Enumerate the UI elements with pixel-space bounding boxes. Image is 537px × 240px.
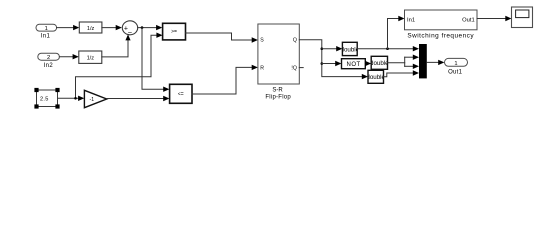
svg-text:>=: >= [171, 29, 177, 35]
wire In2 to UnitDelay2 [59, 54, 78, 59]
wire subsystem to scope [477, 16, 512, 21]
svg-text:R: R [260, 65, 264, 71]
inport In2 [38, 53, 60, 69]
junction node on sum output [141, 26, 144, 29]
junction node to switching frequency subsystem [386, 47, 389, 50]
svg-text:S: S [260, 38, 264, 44]
inport In1 [36, 24, 57, 39]
sum block (+ -) [122, 21, 137, 37]
wire branch down to <= top input [142, 28, 167, 90]
svg-text:1: 1 [454, 61, 457, 67]
scope block [512, 7, 533, 28]
svg-text:double: double [370, 60, 389, 67]
wire dbl B to mux inputs 2 and 3 (branch bracket) [388, 55, 420, 70]
wire up to subsystem input [388, 16, 405, 49]
relational operator <= [170, 84, 192, 103]
svg-text:In1: In1 [41, 33, 51, 39]
svg-text:Q: Q [293, 38, 297, 44]
wire Q output down the bus at x=321.8 to dbl C input [299, 40, 368, 80]
relational operator >= [163, 23, 186, 40]
wire gain to <= bottom input [107, 96, 170, 101]
svg-text:<=: <= [178, 92, 184, 98]
unit delay block 1/z (top) [79, 22, 102, 33]
wire branch to NOT [322, 61, 342, 66]
svg-text:In2: In2 [44, 63, 54, 69]
subsystem Switching frequency [405, 10, 478, 39]
wire dbl A to mux input 1 (branch up to subsystem) [357, 46, 419, 51]
wire dbl C to mux input 4 [384, 70, 420, 76]
svg-text:Flip-Flop: Flip-Flop [265, 95, 291, 101]
wire UnitDelay1 to Sum [102, 25, 122, 30]
wire Sum to relational >= (top input), junction branch down [138, 25, 163, 30]
S-R flip-flop block [258, 24, 299, 101]
svg-text:Out1: Out1 [448, 70, 463, 76]
constant block 2.5 (selected) [34, 88, 59, 109]
svg-text:double: double [366, 74, 385, 81]
svg-text:1: 1 [45, 26, 48, 32]
svg-text:S-R: S-R [272, 87, 283, 93]
junction node on 2.5 output [74, 97, 77, 100]
wire >= output to S input of flip-flop [186, 33, 258, 43]
wire NOT to dbl B [365, 61, 371, 66]
unit delay block 1/z (bottom) [79, 51, 102, 63]
svg-text:NOT: NOT [347, 62, 361, 68]
svg-text:2.5: 2.5 [40, 97, 49, 103]
svg-text:Switching frequency: Switching frequency [407, 32, 474, 39]
svg-text:!Q: !Q [291, 65, 296, 71]
data type conversion B (double) [370, 56, 389, 69]
wire 2.5 to gain [58, 96, 85, 101]
logical operator NOT [342, 59, 366, 69]
outport Out1 [445, 58, 468, 75]
junction node Q branch to NOT [321, 62, 324, 65]
wire UnitDelay2 to Sum minus input [102, 34, 131, 57]
svg-text:2: 2 [47, 55, 50, 61]
mux block [419, 44, 427, 78]
wire mux to Out1 [427, 60, 445, 65]
wire <= output to R input of flip-flop [192, 65, 258, 94]
unconnected !Q stub [299, 67, 303, 69]
wire constant 2.5 up to >= bottom input [76, 33, 163, 99]
gain block -1 [84, 90, 106, 107]
wire branch to dbl A [322, 46, 343, 51]
svg-text:-1: -1 [89, 97, 94, 103]
wire In1 to UnitDelay1 [57, 25, 80, 30]
data type conversion A (double) [341, 42, 360, 55]
svg-text:Out1: Out1 [462, 17, 475, 23]
svg-text:In1: In1 [407, 17, 415, 23]
data type conversion C (double) [366, 70, 385, 83]
svg-text:1/z: 1/z [87, 26, 95, 32]
junction node Q branch to dbl A [321, 47, 324, 50]
svg-text:1/z: 1/z [87, 55, 95, 61]
